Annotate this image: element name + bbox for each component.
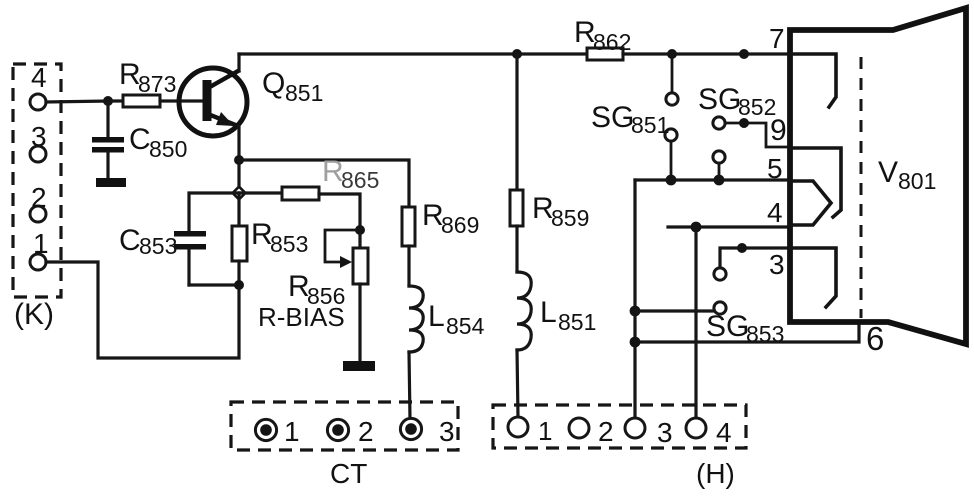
ground under R856 (343, 361, 375, 371)
node top wire / SG851 branch (667, 49, 677, 59)
svg-text:801: 801 (898, 168, 936, 194)
node pin3 wire (737, 243, 747, 253)
CRT pin 3 electrode (769, 248, 836, 307)
resistor R853 (232, 193, 308, 285)
svg-text:4: 4 (767, 197, 783, 228)
node SG852/pin5 (714, 175, 725, 186)
wire node C down-left to K pin 1 (46, 262, 239, 358)
svg-text:R-BIAS: R-BIAS (258, 302, 345, 332)
connector (K) dashed box (13, 64, 61, 297)
wire K4 to node A (46, 101, 108, 102)
node A (103, 96, 113, 106)
svg-text:5: 5 (767, 153, 783, 184)
wire C853 bottom to node C (189, 283, 239, 286)
top supply wire right segment to CRT pin 7 (623, 52, 790, 55)
svg-text:851: 851 (285, 80, 323, 106)
wire R873 to Q851 base (160, 99, 204, 102)
CRT pin 9 electrode (770, 114, 841, 217)
svg-text:SG: SG (698, 83, 741, 116)
svg-text:4: 4 (716, 417, 732, 448)
bottom wire to CRT pin 6 (635, 324, 859, 342)
spark gap SG851 (591, 54, 678, 180)
CRT V801 envelope (790, 8, 966, 344)
svg-text:2: 2 (598, 416, 614, 447)
ground under C850 (96, 178, 126, 187)
svg-text:1: 1 (33, 228, 49, 259)
svg-text:853: 853 (270, 231, 308, 257)
connector K pin 1 (30, 228, 49, 270)
resistor R865 (239, 155, 379, 230)
connector (H) dashed box (493, 405, 746, 448)
svg-text:SG: SG (706, 310, 749, 343)
node Q851 emitter junction (234, 155, 244, 165)
svg-text:873: 873 (138, 71, 176, 97)
wire emitter node to R869 branch (239, 160, 409, 207)
node bottom wire (630, 337, 641, 348)
svg-text:C: C (119, 224, 141, 257)
resistor R869 (402, 199, 479, 286)
svg-text:862: 862 (593, 29, 631, 55)
capacitor C853 (119, 224, 206, 285)
svg-text:2: 2 (31, 182, 47, 213)
wire R859 branch from top (515, 54, 518, 190)
svg-text:Q: Q (262, 67, 285, 100)
svg-text:869: 869 (441, 212, 479, 238)
connector CT dashed box (231, 402, 458, 450)
CRT pin 3 wire (720, 248, 790, 268)
spark gap SG852 (698, 83, 790, 180)
resistor R862 (574, 16, 631, 60)
svg-text:CT: CT (330, 458, 367, 489)
CRT pin 4 wire (668, 225, 790, 228)
svg-text:865: 865 (341, 167, 379, 193)
svg-text:851: 851 (558, 309, 596, 335)
svg-text:3: 3 (31, 121, 47, 152)
svg-text:3: 3 (769, 249, 785, 280)
svg-text:2: 2 (358, 416, 374, 447)
transistor Q851 (179, 67, 323, 136)
svg-text:(H): (H) (696, 458, 735, 489)
node top wire near pin 7 (739, 49, 749, 59)
wire emitter node down to junction (237, 160, 240, 193)
svg-text:851: 851 (631, 112, 669, 138)
svg-text:L: L (540, 296, 557, 329)
node SG851/pin5 (666, 175, 677, 186)
resistor R873 (108, 58, 176, 107)
inductor L854 (409, 286, 485, 419)
connector K pin 4 (30, 62, 47, 110)
capacitor C850 (92, 101, 187, 178)
svg-text:3: 3 (439, 416, 455, 447)
svg-text:SG: SG (591, 101, 634, 134)
node pin4 / H4 branch (691, 222, 702, 233)
connector K pin 2 (30, 182, 47, 222)
svg-text:6: 6 (866, 320, 884, 357)
node C (234, 280, 244, 290)
wire junction to C853 (189, 193, 239, 231)
emitter wire down (237, 126, 240, 160)
CT terminal 2 (327, 416, 373, 447)
svg-text:7: 7 (769, 23, 785, 54)
junction node B (diamond) (233, 187, 246, 200)
svg-text:1: 1 (284, 416, 300, 447)
CRT pin 5 wire (635, 178, 790, 181)
H terminal 3 (625, 417, 673, 448)
spark gap SG853 (635, 268, 784, 347)
CRT cathode electrode pins 5/4 (767, 153, 831, 228)
svg-text:850: 850 (149, 136, 187, 162)
connector K pin 3 (30, 121, 47, 162)
inductor L851 (517, 272, 596, 417)
resistor R859 (510, 190, 589, 272)
node D (R865 / R856 wiper) (355, 225, 365, 235)
svg-text:9: 9 (770, 114, 787, 147)
CT terminal 3 (400, 416, 454, 447)
CRT pin 7 electrode (769, 23, 836, 107)
top supply wire left segment (239, 52, 587, 55)
H terminal 2 (569, 416, 614, 447)
svg-text:3: 3 (657, 417, 673, 448)
svg-text:L: L (428, 300, 445, 333)
node SG853 wire (630, 306, 641, 317)
svg-text:854: 854 (446, 313, 485, 339)
collector wire up (237, 54, 240, 71)
svg-text:(K): (K) (14, 298, 54, 331)
vertical wire pin5 branch down to H3 (633, 180, 636, 418)
svg-text:1: 1 (538, 416, 552, 446)
wire pin4 node down to H4 (694, 227, 697, 418)
H terminal 1 (508, 416, 552, 446)
svg-text:C: C (129, 123, 151, 156)
svg-text:V: V (878, 156, 898, 189)
CT terminal 1 (255, 416, 299, 447)
node top wire / R859 branch (512, 49, 522, 59)
svg-text:853: 853 (139, 233, 177, 259)
H terminal 4 (686, 417, 732, 448)
svg-text:4: 4 (31, 62, 47, 93)
potentiometer R856 R-BIAS (258, 230, 368, 361)
CRT internal dashed electrode line (860, 57, 863, 318)
svg-text:859: 859 (551, 205, 589, 231)
